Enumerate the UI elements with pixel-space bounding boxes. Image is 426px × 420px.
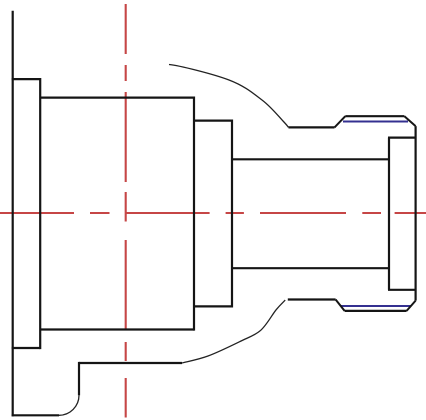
socket bore top line — [388, 137, 416, 139]
step disc right face (vertical) — [231, 120, 233, 308]
body bottom line — [40, 328, 194, 330]
thread relief groove top line — [289, 126, 335, 128]
end face right (vertical) — [415, 126, 417, 301]
socket bore left edge (vertical) — [388, 138, 390, 290]
step disc bottom line — [194, 305, 232, 307]
housing corner fillet arc — [59, 395, 79, 415]
thread chamfer bottom-left — [336, 300, 345, 311]
left flange face (outer disc edge, vertical) — [12, 11, 14, 417]
vertical centerline (red dash-dot) — [125, 4, 127, 418]
flange right face / body left edge (vertical) — [39, 78, 41, 349]
flange bottom step — [12, 347, 41, 349]
housing lower-left vertical — [78, 362, 80, 395]
flange top step — [12, 78, 41, 80]
step disc top line — [194, 119, 232, 121]
thread minor-diameter line bottom (blue) — [341, 305, 411, 307]
thread chamfer top-left — [335, 116, 346, 127]
housing bell curve bottom — [182, 300, 285, 363]
housing bottom line — [12, 414, 59, 416]
housing lower flat line — [79, 362, 182, 364]
thread chamfer bottom-right — [407, 301, 416, 311]
thread chamfer top-right — [404, 116, 415, 126]
thread relief groove bottom line — [288, 298, 336, 300]
thread minor-diameter line top (blue) — [343, 121, 408, 123]
socket bore bottom line — [388, 289, 416, 291]
neck top line — [232, 158, 389, 160]
body right face (vertical) — [193, 97, 195, 331]
horizontal centerline (red dash-dot) — [0, 212, 426, 214]
neck bottom line — [232, 267, 389, 269]
thread crest top line — [345, 115, 404, 117]
body top line — [40, 96, 194, 98]
thread crest bottom line — [345, 310, 407, 312]
housing bell curve top — [169, 65, 289, 128]
